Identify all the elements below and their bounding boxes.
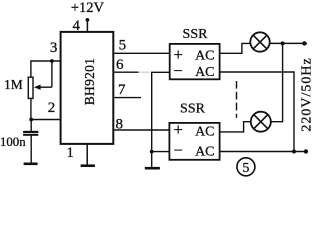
neutral terminal dot — [304, 149, 308, 153]
wire capacitor to ground — [30, 135, 32, 163]
wire pin7 stub — [113, 97, 141, 99]
wire SSR2 minus output / neutral line — [221, 151, 308, 153]
ground bar under pin1 — [81, 164, 95, 167]
svg-text:7: 7 — [118, 82, 126, 98]
dashed continuation line — [236, 81, 238, 118]
node rail to SSR2 minus — [150, 150, 154, 154]
svg-text:AC: AC — [195, 49, 214, 64]
wire SSR1 minus output to neutral — [221, 72, 295, 151]
capacitor C1 top plate — [23, 131, 38, 133]
svg-text:220V/50Hz: 220V/50Hz — [299, 57, 314, 131]
svg-text:SSR: SSR — [183, 27, 209, 42]
wire SSR1 + output to lamp1 — [220, 43, 250, 53]
wire pin2 — [31, 119, 60, 121]
svg-text:AC: AC — [195, 145, 214, 160]
wire rail to lamp2 — [271, 43, 283, 121]
+12V terminal dot — [86, 18, 90, 22]
line terminal dot — [302, 41, 306, 45]
wire rail to SSR2 minus — [152, 151, 169, 153]
svg-text:AC: AC — [195, 65, 214, 80]
svg-text:5: 5 — [242, 161, 249, 176]
lamp EL2 — [251, 112, 271, 132]
node lamp rail junction — [281, 41, 285, 45]
wire wiper vertical — [51, 61, 53, 87]
wiper arrowhead — [34, 85, 41, 90]
wire pin4 stub to +12V — [86, 20, 88, 32]
wire pin5 to SSR1 + — [113, 52, 169, 54]
SSR U3 box — [169, 123, 219, 160]
wire wiper horizontal — [40, 86, 52, 88]
svg-text:2: 2 — [48, 100, 56, 116]
op-amp U1 BH9201 IC body — [61, 32, 114, 144]
ground bar under capacitor — [24, 163, 38, 166]
svg-text:AC: AC — [195, 124, 214, 139]
lamp EL1 — [250, 32, 269, 51]
wire pin3 to potentiometer top — [31, 61, 61, 77]
capacitor C1 bottom plate — [23, 134, 38, 136]
wire pin6 faded continuation — [139, 71, 150, 73]
node neutral rail junction — [292, 150, 296, 154]
ground bar under rail — [145, 167, 160, 170]
svg-text:100n: 100n — [0, 135, 26, 149]
svg-text:4: 4 — [72, 18, 80, 34]
svg-text:−: − — [174, 61, 183, 80]
wire pin8 to SSR2 + — [113, 129, 169, 131]
wire pin6 stub — [113, 71, 138, 73]
svg-text:−: − — [174, 141, 183, 160]
resistor RP 1M body — [28, 77, 33, 98]
wire pin1 stub — [86, 145, 88, 165]
wire potentiometer bottom to pin2 node — [30, 99, 32, 120]
node pin3/wiper junction — [50, 59, 54, 63]
wire node to capacitor top — [30, 120, 32, 132]
wire SSR1 minus to ground rail — [152, 72, 170, 167]
svg-text:+: + — [174, 120, 183, 139]
svg-text:5: 5 — [119, 37, 127, 53]
SSR U2 box — [170, 44, 220, 79]
svg-text:BH9201: BH9201 — [82, 58, 97, 106]
svg-text:1M: 1M — [4, 77, 23, 92]
figure number circled 5 — [237, 158, 255, 176]
svg-text:SSR: SSR — [180, 102, 206, 117]
svg-text:1: 1 — [66, 145, 74, 161]
wire lamp1 to line terminal — [270, 42, 307, 44]
svg-text:6: 6 — [116, 57, 124, 73]
svg-text:3: 3 — [50, 40, 58, 56]
svg-text:+12V: +12V — [71, 0, 105, 16]
node pin2/cap junction — [29, 118, 33, 122]
wire SSR2 + output to lamp2 — [220, 122, 251, 132]
